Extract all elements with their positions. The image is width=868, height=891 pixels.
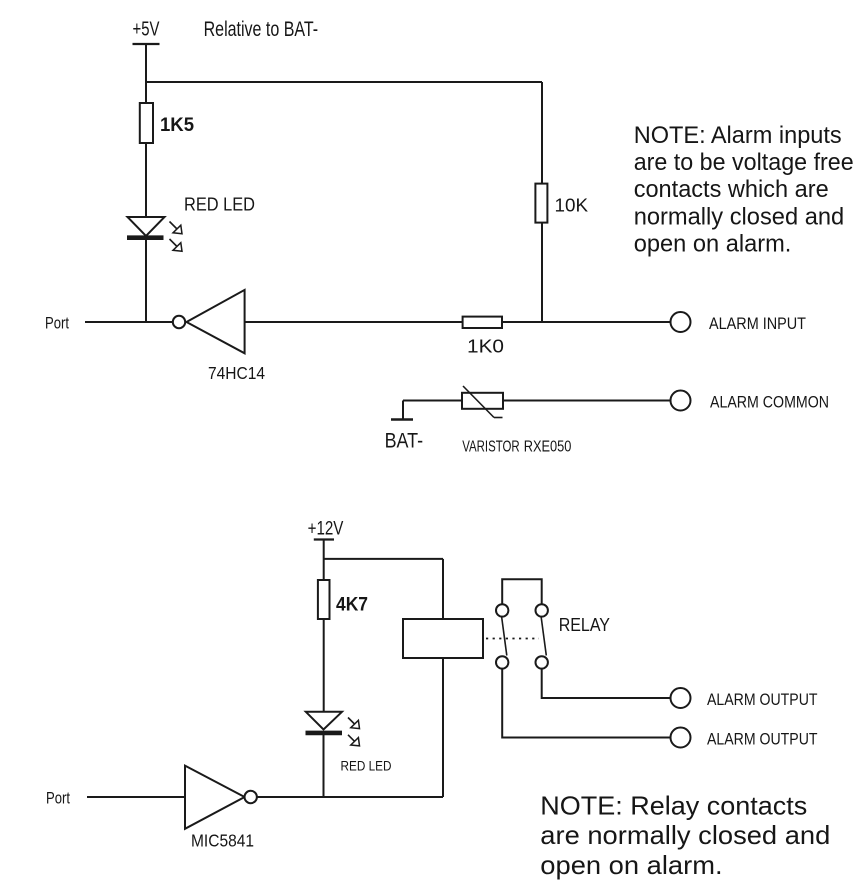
svg-text:RED LED: RED LED [184, 194, 255, 215]
+5V supply symbol [133, 19, 160, 45]
relay contact top bar [502, 579, 542, 604]
wire 4K7 to LED D2 [323, 619, 325, 712]
terminal ALARM INPUT [671, 312, 807, 333]
note text relay contacts [540, 791, 830, 880]
svg-text:are to be voltage free: are to be voltage free [634, 149, 854, 176]
svg-text:Port: Port [46, 790, 70, 808]
note text alarm inputs [634, 122, 854, 258]
wire inverter U2 output to relay branch [257, 796, 443, 798]
varistor RV1 RXE050 [462, 386, 571, 456]
svg-text:open on alarm.: open on alarm. [634, 230, 792, 257]
svg-text:RELAY: RELAY [559, 615, 610, 635]
relay actuation dotted link [486, 638, 539, 640]
wire right contact to ALARM OUTPUT 1 [542, 669, 671, 698]
svg-text:normally closed and: normally closed and [634, 203, 845, 230]
terminal ALARM COMMON [671, 391, 830, 412]
svg-text:BAT-: BAT- [385, 430, 424, 453]
terminal ALARM OUTPUT 1 [671, 688, 818, 709]
svg-text:74HC14: 74HC14 [208, 363, 265, 383]
svg-text:10K: 10K [555, 196, 589, 216]
svg-text:ALARM INPUT: ALARM INPUT [709, 314, 806, 333]
resistor 1K0 [463, 317, 504, 357]
relay contact pole circles top [496, 604, 548, 616]
relay contact pole circles bottom [496, 656, 548, 668]
wire +12V down to 4K7 [323, 540, 325, 581]
resistor 10K [535, 184, 588, 223]
svg-text:1K5: 1K5 [160, 115, 194, 136]
wire relay coil bottom to output line [442, 658, 444, 797]
svg-text:NOTE: Alarm inputs: NOTE: Alarm inputs [634, 122, 842, 149]
svg-text:4K7: 4K7 [336, 595, 368, 616]
svg-text:+5V: +5V [133, 19, 160, 41]
wire from LED to port line [145, 240, 147, 322]
wire BAT- to varistor [403, 400, 462, 402]
wire top rail from +5V to 10K branch [146, 81, 542, 83]
svg-text:ALARM OUTPUT: ALARM OUTPUT [707, 690, 818, 709]
wire 1K0 to ALARM INPUT terminal, junction with 10K branch [502, 321, 670, 323]
wire left contact to ALARM OUTPUT 2 [502, 669, 670, 738]
svg-text:are normally closed and: are normally closed and [540, 820, 830, 850]
svg-text:open on alarm.: open on alarm. [540, 850, 722, 880]
wire from 1K5 to LED D1 [145, 143, 147, 218]
wire varistor to ALARM COMMON terminal [503, 400, 670, 402]
wire inverter input to resistor 1K0 [245, 321, 463, 323]
wire +12V rail to relay coil [324, 558, 443, 560]
LED D2 red led [306, 712, 360, 746]
svg-text:contacts which are: contacts which are [634, 176, 829, 203]
svg-text:MIC5841: MIC5841 [191, 831, 254, 851]
svg-text:RED LED: RED LED [341, 759, 392, 774]
svg-text:+12V: +12V [308, 519, 344, 540]
svg-text:Relative to BAT-: Relative to BAT- [204, 18, 319, 41]
wire Port to inverter bubble [85, 321, 173, 323]
svg-text:1K0: 1K0 [467, 337, 504, 357]
wire from +5V down to resistor R 1K5 [145, 44, 147, 103]
wire LED D2 to port line [323, 735, 325, 797]
svg-text:NOTE: Relay contacts: NOTE: Relay contacts [540, 791, 807, 821]
inverter U1 74HC14 [173, 290, 265, 383]
svg-text:Port: Port [45, 315, 69, 333]
inverter U2 MIC5841 [185, 766, 257, 851]
svg-text:RXE050: RXE050 [524, 439, 572, 456]
+12V supply symbol [308, 519, 344, 540]
resistor 1K5 [140, 103, 195, 143]
wire down to relay coil top [442, 559, 444, 619]
wire 10K branch vertical upper [541, 82, 543, 184]
terminal ALARM OUTPUT 2 [671, 728, 818, 749]
relay coil K1 [403, 619, 483, 658]
BAT- stub [385, 401, 424, 453]
svg-text:VARISTOR: VARISTOR [462, 439, 520, 456]
svg-text:ALARM COMMON: ALARM COMMON [710, 393, 829, 412]
LED D1 red led [127, 217, 182, 251]
wire 10K branch vertical lower [541, 223, 543, 322]
relay contact arms [502, 617, 547, 655]
svg-text:ALARM OUTPUT: ALARM OUTPUT [707, 730, 818, 749]
resistor 4K7 [318, 580, 368, 619]
wire Port to inverter U2 [87, 796, 185, 798]
